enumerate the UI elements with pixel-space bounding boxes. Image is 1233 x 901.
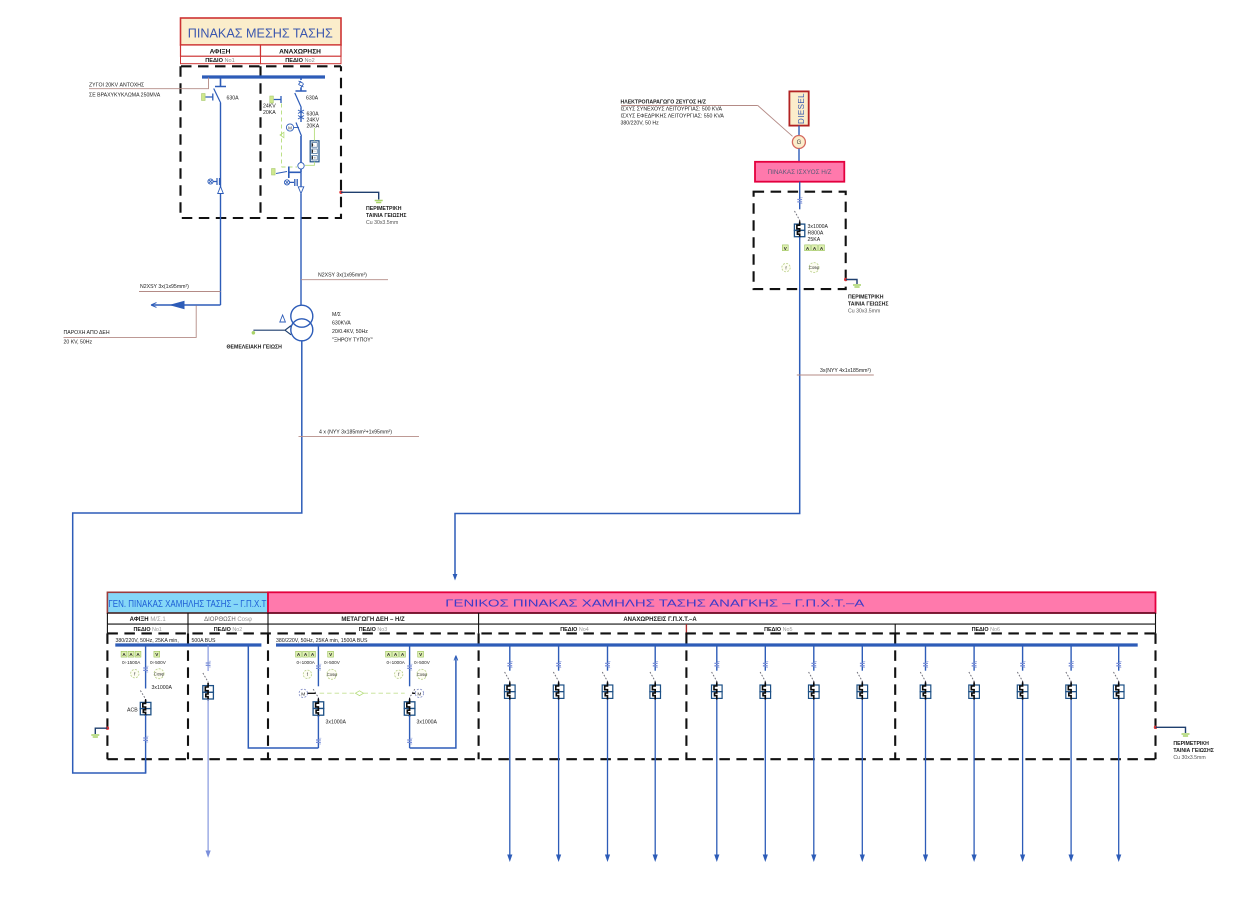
svg-text:ΠΕΔΙΟ No2: ΠΕΔΙΟ No2 xyxy=(285,58,315,64)
svg-text:ΙΣΧΥΣ ΣΥΝΕΧΟΥΣ ΛΕΙΤΟΥΡΓΙΑΣ: 50: ΙΣΧΥΣ ΣΥΝΕΧΟΥΣ ΛΕΙΤΟΥΡΓΙΑΣ: 500 KVA xyxy=(621,107,723,113)
generator power panel title xyxy=(755,162,844,182)
GPXT to changeover interconnect wire xyxy=(248,645,318,748)
AFIXH instruments xyxy=(121,651,167,678)
generator set label xyxy=(621,100,793,137)
svg-text:20/0.4KV, 50Hz: 20/0.4KV, 50Hz xyxy=(332,329,368,335)
svg-text:ΠΕΡΙΜΕΤΡΙΚΗ: ΠΕΡΙΜΕΤΡΙΚΗ xyxy=(366,206,402,212)
wire: departure feeder down to transformer xyxy=(300,194,302,306)
MV panel header row PEDIO No1 / No2 xyxy=(181,56,342,64)
svg-text:ΠΕΔΙΟ No5: ΠΕΔΙΟ No5 xyxy=(764,627,792,633)
LV panel dashed enclosure xyxy=(107,633,1155,759)
LV panel earth tap right xyxy=(1154,726,1214,761)
svg-text:ΤΑΙΝΙΑ ΓΕΙΩΣΗΣ: ΤΑΙΝΙΑ ΓΕΙΩΣΗΣ xyxy=(1173,748,1214,754)
LV header row: section names xyxy=(107,613,1155,624)
arrow up (incoming direction) xyxy=(218,187,224,194)
svg-text:ΠΕΔΙΟ No3: ΠΕΔΙΟ No3 xyxy=(359,627,387,633)
earthing switch arrival xyxy=(208,178,220,185)
svg-text:20KA: 20KA xyxy=(307,124,320,130)
svg-text:ΠΕΔΙΟ No1: ΠΕΔΙΟ No1 xyxy=(133,627,161,633)
feeder Q4.2 xyxy=(553,645,564,862)
feeder Q6.3 xyxy=(1017,645,1028,862)
svg-text:380/220V, 50 Hz: 380/220V, 50 Hz xyxy=(621,121,660,127)
wire: transformer to LV panel xyxy=(73,341,302,773)
cable label 4x NYY xyxy=(299,430,420,437)
svg-text:ΓΕΝ. ΠΙΝΑΚΑΣ ΧΑΜΗΛΗΣ ΤΑΣΗΣ – Γ: ΓΕΝ. ΠΙΝΑΚΑΣ ΧΑΜΗΛΗΣ ΤΑΣΗΣ – Γ.Π.Χ.Τ xyxy=(108,599,266,610)
svg-text:R800A: R800A xyxy=(808,231,824,237)
feeder Q6.4 xyxy=(1066,645,1077,862)
svg-text:G: G xyxy=(797,140,802,146)
MV panel header row AFIXH / ANAXWRHSH xyxy=(181,45,342,56)
feeder Q5.2 xyxy=(760,645,771,862)
svg-text:⇈: ⇈ xyxy=(313,156,316,160)
svg-text:ΑΝΑΧΩΡΗΣΗ: ΑΝΑΧΩΡΗΣΗ xyxy=(279,48,321,55)
capacitor correction feeder xyxy=(203,645,214,858)
svg-text:0÷1000A: 0÷1000A xyxy=(297,660,316,665)
busbar note leader xyxy=(89,78,209,99)
svg-text:Cu 30x3.5mm: Cu 30x3.5mm xyxy=(366,220,398,226)
supply line from PPC (DEH) xyxy=(151,301,221,310)
bus spec labels xyxy=(116,638,369,644)
svg-text:3x1000A: 3x1000A xyxy=(152,685,173,691)
MV fuse departure xyxy=(298,108,320,130)
svg-text:"ΞΗΡΟΥ ΤΥΠΟΥ": "ΞΗΡΟΥ ΤΥΠΟΥ" xyxy=(332,338,373,344)
wire: generator to LV emergency panel xyxy=(453,289,800,581)
LV emergency panel title (pink) xyxy=(268,592,1156,613)
MV panel dashed enclosure xyxy=(181,66,342,218)
svg-text:ΓΕΝΙΚΟΣ ΠΙΝΑΚΑΣ ΧΑΜΗΛΗΣ ΤΑΣΗΣ: ΓΕΝΙΚΟΣ ΠΙΝΑΚΑΣ ΧΑΜΗΛΗΣ ΤΑΣΗΣ ΑΝΑΓΚΗΣ – … xyxy=(445,598,864,609)
svg-text:ACB: ACB xyxy=(127,708,138,714)
svg-text:N2XSY 3x(1x95mm²): N2XSY 3x(1x95mm²) xyxy=(318,273,367,279)
svg-text:630KVA: 630KVA xyxy=(332,321,351,327)
svg-text:ΣΕ ΒΡΑΧΥΚΥΚΛΩΜΑ 250MVA: ΣΕ ΒΡΑΧΥΚΥΚΛΩΜΑ 250MVA xyxy=(89,93,161,99)
svg-text:ΑΦΙΞΗ Μ/Σ.1: ΑΦΙΞΗ Μ/Σ.1 xyxy=(130,617,167,623)
svg-text:500A BUS: 500A BUS xyxy=(192,638,216,644)
protection relay box xyxy=(310,141,319,162)
svg-text:ΜΕΤΑΓΩΓΗ ΔΕΗ – Η/Ζ: ΜΕΤΑΓΩΓΗ ΔΕΗ – Η/Ζ xyxy=(341,617,405,623)
svg-text:ΘΕΜΕΛΕΙΑΚΗ ΓΕΙΩΣΗ: ΘΕΜΕΛΕΙΑΚΗ ΓΕΙΩΣΗ xyxy=(227,345,283,351)
svg-text:ΠΕΡΙΜΕΤΡΙΚΗ: ΠΕΡΙΜΕΤΡΙΚΗ xyxy=(1173,741,1209,747)
svg-text:DIESEL: DIESEL xyxy=(797,93,806,124)
generator panel earth tap xyxy=(844,278,889,315)
AFIXH incomer ACB xyxy=(127,645,173,773)
svg-text:3x1000A: 3x1000A xyxy=(808,224,829,230)
cable label N2XSY arrival xyxy=(139,284,221,292)
supply label leader xyxy=(64,306,197,346)
arrow down (departure direction) xyxy=(298,172,304,193)
svg-text:ΤΑΙΝΙΑ ΓΕΙΩΣΗΣ: ΤΑΙΝΙΑ ΓΕΙΩΣΗΣ xyxy=(848,302,889,308)
svg-text:630A: 630A xyxy=(306,96,319,102)
LV busbar GPXT xyxy=(115,643,261,646)
svg-text:0÷500V: 0÷500V xyxy=(414,660,431,665)
svg-text:M: M xyxy=(288,126,292,131)
H/Z side instruments xyxy=(386,651,431,679)
diesel engine box xyxy=(789,91,808,125)
svg-text:ΑΝΑΧΩΡΗΣΕΙΣ Γ.Π.Χ.Τ.–Α: ΑΝΑΧΩΡΗΣΕΙΣ Γ.Π.Χ.Τ.–Α xyxy=(623,617,697,623)
generator panel instruments xyxy=(782,245,825,273)
svg-text:ΖΥΓΟΙ 20KV ΑΝΤΟΧΗΣ: ΖΥΓΟΙ 20KV ΑΝΤΟΧΗΣ xyxy=(89,83,144,89)
svg-text:20 KV, 50Hz: 20 KV, 50Hz xyxy=(64,340,93,346)
svg-text:ΠΙΝΑΚΑΣ ΙΣΧΥΟΣ Η/Ζ: ΠΙΝΑΚΑΣ ΙΣΧΥΟΣ Η/Ζ xyxy=(768,169,832,176)
svg-text:Μ/Σ: Μ/Σ xyxy=(332,312,341,318)
svg-text:Cu 30x3.5mm: Cu 30x3.5mm xyxy=(848,309,880,315)
svg-text:ΗΛΕΚΤΡΟΠΑΡΑΓΩΓΟ ΖΕΥΓΟΣ Η/Ζ: ΗΛΕΚΤΡΟΠΑΡΑΓΩΓΟ ΖΕΥΓΟΣ Η/Ζ xyxy=(621,100,707,106)
feeder Q5.4 xyxy=(857,645,868,862)
cable label 3x NYY xyxy=(797,368,874,375)
LV busbar GPXT-A xyxy=(276,643,1138,646)
svg-text:ΠΕΔΙΟ No6: ΠΕΔΙΟ No6 xyxy=(972,627,1000,633)
svg-text:ΠΑΡΟΧΗ ΑΠΟ ΔΕΗ: ΠΑΡΟΧΗ ΑΠΟ ΔΕΗ xyxy=(64,330,110,336)
svg-text:Cu 30x3.5mm: Cu 30x3.5mm xyxy=(1173,755,1205,761)
svg-text:3x1000A: 3x1000A xyxy=(326,720,347,726)
svg-text:››: ›› xyxy=(313,150,315,154)
disconnector Q2 (departure field) xyxy=(263,77,319,116)
svg-text:N2XSY 3x(1x95mm²): N2XSY 3x(1x95mm²) xyxy=(140,284,189,290)
feeder Q6.2 xyxy=(969,645,980,862)
MV panel title box xyxy=(181,18,342,45)
svg-text:24KV: 24KV xyxy=(263,104,276,110)
feeder Q5.3 xyxy=(809,645,820,862)
feeder Q4.3 xyxy=(602,645,613,862)
circuit breaker with motor M xyxy=(286,123,301,173)
CT circle xyxy=(298,163,304,169)
feeder Q4.1 xyxy=(505,645,516,862)
disconnector Q1 (arrival field) xyxy=(202,77,240,103)
feeder Q5.1 xyxy=(712,645,723,862)
changeover DEH contactor xyxy=(299,645,346,748)
svg-text:M: M xyxy=(417,691,421,697)
cable label N2XSY departure xyxy=(301,273,388,280)
svg-text:0÷1500A: 0÷1500A xyxy=(122,660,141,665)
generator G xyxy=(792,126,805,162)
svg-text:ΙΣΧΥΣ ΕΦΕΔΡΙΚΗΣ ΛΕΙΤΟΥΡΓΙΑΣ: 5: ΙΣΧΥΣ ΕΦΕΔΡΙΚΗΣ ΛΕΙΤΟΥΡΓΙΑΣ: 550 KVA xyxy=(621,114,725,120)
svg-text:380/220V, 50Hz, 25KA min,: 380/220V, 50Hz, 25KA min, xyxy=(116,638,179,644)
svg-text:ΠΕΔΙΟ No2: ΠΕΔΙΟ No2 xyxy=(214,627,242,633)
feeder Q6.5 xyxy=(1113,645,1124,862)
svg-text:›: › xyxy=(313,143,314,147)
svg-text:0÷1000A: 0÷1000A xyxy=(387,660,406,665)
svg-text:ΤΑΙΝΙΑ ΓΕΙΩΣΗΣ: ΤΑΙΝΙΑ ΓΕΙΩΣΗΣ xyxy=(366,213,407,219)
wire: H/Z incoming inside panel xyxy=(410,656,458,749)
svg-text:630A: 630A xyxy=(227,96,240,102)
svg-text:ΑΦΙΞΗ: ΑΦΙΞΗ xyxy=(210,48,231,55)
svg-text:ΠΕΡΙΜΕΤΡΙΚΗ: ΠΕΡΙΜΕΤΡΙΚΗ xyxy=(848,295,884,301)
MV busbar 20kV xyxy=(202,75,325,78)
feeder Q6.1 xyxy=(920,645,931,862)
transformer M/S 630kVA xyxy=(291,305,373,343)
svg-text:ΠΕΔΙΟ No4: ΠΕΔΙΟ No4 xyxy=(560,627,588,633)
LV main panel title (cyan) xyxy=(107,592,268,613)
DEH side instruments xyxy=(296,651,341,679)
svg-text:25KA: 25KA xyxy=(808,237,821,243)
MV panel internal dashed divider xyxy=(259,66,261,218)
svg-text:380/220V, 50Hz, 25KA min, 150: 380/220V, 50Hz, 25KA min, 1500A BUS xyxy=(276,638,368,644)
green control wiring xyxy=(280,104,314,168)
svg-text:20KA: 20KA xyxy=(263,110,276,116)
MV panel perimeter earth tap xyxy=(339,191,406,226)
svg-text:3x(NYY 4x1x185mm²): 3x(NYY 4x1x185mm²) xyxy=(820,368,871,374)
svg-text:ΠΙΝΑΚΑΣ ΜΕΣΗΣ ΤΑΣΗΣ: ΠΙΝΑΚΑΣ ΜΕΣΗΣ ΤΑΣΗΣ xyxy=(188,27,333,41)
svg-text:0÷500V: 0÷500V xyxy=(150,660,167,665)
feeder Q4.4 xyxy=(650,645,661,862)
svg-text:M: M xyxy=(301,691,305,697)
svg-text:0÷500V: 0÷500V xyxy=(324,660,341,665)
LV header row: PEDIO numbers xyxy=(107,624,1155,633)
changeover H/Z contactor xyxy=(404,645,437,748)
generator breaker feeder xyxy=(794,182,828,289)
foundation earth of transformer xyxy=(227,315,292,351)
svg-text:4 x (NYY 3x185mm²+1x95mm²): 4 x (NYY 3x185mm²+1x95mm²) xyxy=(319,430,392,436)
wire: arrival feeder down xyxy=(220,103,222,305)
LV panel earth tap left xyxy=(91,727,109,738)
earthing switch departure xyxy=(272,167,302,187)
svg-text:ΠΕΔΙΟ No1: ΠΕΔΙΟ No1 xyxy=(205,58,235,64)
svg-text:ΔΙΟΡΘΩΣΗ Cosφ: ΔΙΟΡΘΩΣΗ Cosφ xyxy=(204,617,252,623)
interlock between contactors xyxy=(320,691,405,696)
generator panel dashed enclosure xyxy=(754,192,846,289)
svg-text:3x1000A: 3x1000A xyxy=(417,720,438,726)
